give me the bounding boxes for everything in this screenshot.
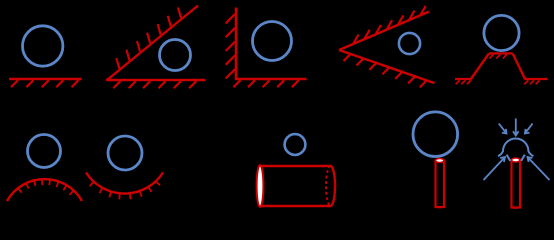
arrow top-left	[499, 124, 507, 134]
cylinder body top line	[261, 165, 331, 167]
cylinder right end hidden edge dashed	[326, 166, 331, 206]
rod 10 top cap	[512, 158, 520, 162]
convex bump arc	[7, 179, 82, 201]
wedge upper hatching	[353, 6, 426, 44]
arrow lower-left	[484, 157, 506, 180]
convex bump hatching	[18, 179, 74, 195]
rod 9 body	[436, 161, 445, 208]
plateau right base line	[525, 78, 548, 80]
wedge lower hatching	[344, 54, 427, 87]
plateau left base line	[455, 78, 472, 80]
ball 5 on plateau	[484, 15, 519, 50]
ground 1 hatching	[11, 80, 79, 87]
concave valley hatching	[90, 181, 160, 199]
incline ground hatching	[113, 81, 196, 88]
ball 4 in V-wedge	[399, 33, 420, 54]
ball 6 on convex bump	[28, 135, 61, 168]
rod 9 top cap	[436, 159, 444, 163]
cylinder right end visible edge	[331, 166, 336, 206]
dome cap on rod 10	[498, 138, 533, 156]
concave valley arc	[86, 173, 163, 194]
arrow top	[513, 119, 519, 136]
ground 1 surface line	[9, 78, 82, 81]
corner floor line	[235, 78, 307, 81]
corner floor hatching	[233, 80, 298, 87]
dome left skirt	[507, 155, 511, 161]
arrow lower-right	[528, 157, 550, 180]
dome right skirt	[521, 155, 525, 161]
rod 10 body	[512, 160, 521, 208]
incline hatching	[116, 7, 181, 68]
ball 8 above cylinder	[285, 134, 306, 155]
cylinder left end cap	[257, 165, 264, 207]
ball 9 on rod	[413, 112, 458, 157]
ball 7 in concave valley	[108, 136, 142, 170]
wedge upper line	[339, 12, 429, 50]
plateau right slope	[513, 53, 525, 79]
plateau top hatching	[489, 55, 507, 59]
rod 9 bottom cap	[436, 206, 445, 208]
plateau left base hatching	[456, 80, 471, 84]
ball 3 in corner	[253, 22, 292, 61]
ball 1 on flat ground	[23, 26, 63, 66]
rod 10 bottom cap	[512, 206, 521, 208]
plateau top line	[489, 52, 513, 54]
arrow top-right	[525, 124, 533, 134]
incline surface line	[107, 6, 198, 81]
corner wall vertical line	[235, 8, 238, 81]
corner wall hatching	[226, 14, 235, 79]
wedge lower line	[339, 50, 435, 83]
ball 2 on incline	[160, 40, 191, 71]
cylinder body bottom line	[261, 205, 331, 207]
incline ground line	[106, 79, 206, 81]
plateau left slope	[471, 53, 489, 79]
plateau right base hatching	[524, 80, 539, 84]
